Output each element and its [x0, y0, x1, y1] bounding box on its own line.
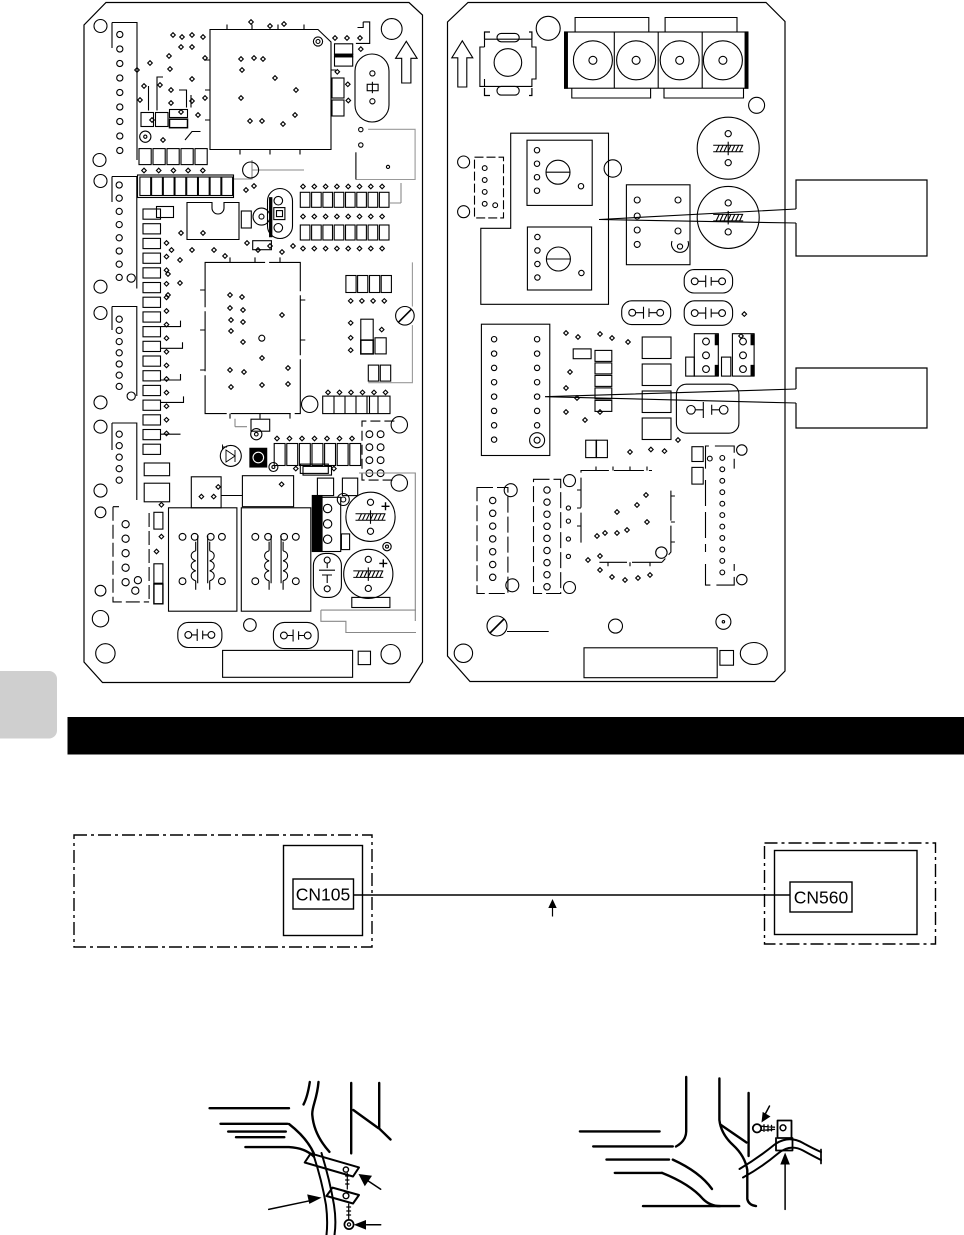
right illustration bottom corner curves [673, 1160, 712, 1189]
connector J5 right outline [362, 421, 394, 480]
relay RY2 [527, 227, 591, 290]
driver box A [191, 477, 221, 508]
capacitor C1 [346, 492, 395, 541]
gray side tab [0, 671, 57, 739]
power pad black square [250, 448, 267, 467]
via column beside ladder [164, 241, 169, 246]
mounting hole H8 [94, 396, 107, 409]
svg-text:CN105: CN105 [296, 885, 350, 905]
header rows CN4 row B [300, 225, 310, 240]
washer right [269, 463, 278, 472]
capacitor pair C12 [368, 365, 378, 381]
terminal block TB1 top brackets [575, 18, 737, 33]
callout box 1 [796, 180, 927, 256]
small part [157, 207, 174, 218]
left illustration arrow 2 [269, 1201, 310, 1210]
U2 edge ticks [200, 257, 305, 418]
orientation arrow right board [452, 41, 473, 87]
small part [573, 349, 591, 359]
buzzer BZ1 body [485, 32, 532, 96]
wire pointer arrow [552, 903, 554, 917]
IC U2 package [205, 262, 300, 413]
hole bottom mid [244, 619, 257, 632]
stub traces from ladder [161, 321, 184, 435]
trimmer VR1 obround [268, 189, 293, 239]
via row [142, 168, 147, 173]
CN560 label box [790, 882, 852, 912]
right illustration back edge line [747, 1093, 749, 1156]
part box [251, 419, 270, 431]
connector J4 outline [112, 423, 137, 500]
section banner [68, 717, 964, 755]
capacitor C3 [697, 117, 759, 179]
part column boxes [642, 337, 671, 359]
U2 vias [228, 293, 233, 298]
connector J12 outline [534, 479, 561, 593]
hole right2 [391, 475, 407, 491]
connector CN560 16pin [481, 324, 549, 455]
left illustration louver lines [210, 1107, 289, 1109]
mounting hole H4 [94, 175, 107, 188]
washer pad [383, 542, 391, 550]
cap pill B3 [684, 301, 732, 326]
hole H11 [302, 396, 318, 412]
via row below D1 [348, 299, 353, 304]
resistor network rows RN1 [139, 149, 151, 165]
unit A inner board box [284, 846, 363, 936]
via dots scatter mid [169, 248, 174, 253]
J10 pads [720, 456, 725, 461]
two squares [586, 440, 596, 457]
IC U1 package [210, 30, 331, 150]
cap pill P2 [273, 622, 318, 648]
IC U6 QFP [581, 471, 671, 563]
mounting hole H3 [381, 19, 402, 40]
unit B dash-dot box [765, 843, 936, 944]
connector J10 outline [706, 446, 735, 585]
zone line [368, 262, 412, 382]
part boxes left column [144, 463, 169, 476]
unit A dash-dot box [74, 835, 372, 947]
mounting hole H12 [95, 507, 106, 518]
black capacitor bar [312, 496, 322, 552]
connector J11 outline [477, 488, 508, 594]
right illustration clamp [778, 1121, 792, 1139]
J12 pads [544, 487, 550, 493]
J7 pads [482, 166, 487, 171]
U1 inner vias [239, 57, 244, 62]
pad with dot [716, 614, 731, 629]
mounting hole H10 [94, 484, 107, 497]
via dots cluster top [171, 33, 176, 38]
mounting hole H16 [381, 645, 400, 664]
right illustration arrow down [765, 1106, 770, 1115]
mounting hole HB3 [740, 643, 767, 665]
mounting hole H1 [94, 20, 107, 33]
IC U3 notched [187, 203, 239, 240]
connector J3 outline [112, 307, 137, 397]
J11 pads [490, 497, 496, 503]
unit B inner board box [775, 851, 918, 935]
small part [241, 211, 251, 228]
right illustration screw [753, 1124, 761, 1132]
pad circle [127, 274, 135, 282]
connection wire [354, 894, 791, 896]
connector row CN3 [326, 390, 331, 395]
callout 1 leader lines [599, 209, 796, 223]
part boxes row [303, 466, 332, 475]
capacitor C10 pair [335, 44, 353, 54]
cap pill B4 [676, 384, 739, 433]
trace bracket top right [356, 22, 370, 44]
mounting hole HB2 [454, 644, 472, 662]
transistor Q1 stacked boxes [361, 319, 373, 340]
washer above [251, 429, 262, 440]
screw hole with slash [396, 307, 415, 326]
cap pill B2 [622, 301, 671, 325]
mounting hole H14 [92, 611, 108, 627]
mounting hole H9 [94, 420, 107, 433]
left illustration plate [327, 1188, 360, 1204]
right illustration cabinet edge curves [676, 1077, 686, 1147]
bottom silk label box right [584, 648, 717, 678]
right illustration cable [740, 1139, 822, 1169]
washer pad [253, 208, 270, 225]
bottom silk label box [223, 650, 353, 677]
header rows CN4 row A [300, 192, 310, 207]
hole mid [604, 160, 621, 177]
relay zone outline [481, 133, 609, 304]
left illustration bottom corner curve [289, 1124, 314, 1153]
connector row CN5 [274, 444, 285, 466]
via row mid [275, 436, 280, 441]
right illustration arrow up [784, 1164, 786, 1209]
hole H6 [243, 162, 259, 178]
opto U4 [694, 334, 718, 376]
J6 pads [122, 521, 129, 528]
opto U5 [732, 334, 754, 376]
trace from RN2 to U1 [234, 160, 304, 179]
connector J2 pads [116, 182, 122, 188]
left illustration cabinet edge curves [304, 1082, 310, 1105]
hole HT2 [749, 97, 765, 113]
left illustration arrow 3 [367, 1224, 381, 1226]
header rows CN4 vias bottom [301, 246, 306, 251]
traces near capacitor bank [149, 77, 201, 140]
part below C2 [352, 597, 390, 607]
left illustration screw 2 [347, 1204, 351, 1219]
small caps beside optos [686, 357, 695, 376]
J5 pads [366, 431, 373, 438]
TB1 screws [573, 41, 612, 80]
driver box B [242, 476, 293, 507]
stacked pair [692, 447, 703, 462]
via row below U6 [598, 568, 603, 573]
mounting hole H5 [94, 280, 107, 293]
right illustration bottom edge [643, 1205, 739, 1207]
left illustration clamp bar [305, 1153, 359, 1176]
capacitor C11 pair [332, 78, 344, 98]
hole HB1 [609, 619, 623, 633]
capacitor C4 [697, 186, 759, 248]
via dots right of U1 [333, 36, 338, 41]
fiducial pad [313, 37, 322, 46]
mounting hole H2 [93, 154, 106, 167]
left illustration side panel lines [350, 1083, 352, 1153]
connector 3pin box [322, 497, 341, 551]
via scatter [564, 331, 569, 336]
small pad square [358, 651, 370, 664]
copper zone outline right [356, 129, 415, 179]
connector J3 pads [116, 316, 122, 322]
left illustration screw 1 shaft [346, 1173, 349, 1189]
transformer T2 [241, 508, 310, 611]
IC U1 edge ticks [205, 25, 336, 155]
capacitor C2 [344, 549, 393, 598]
connector J4 pads [116, 431, 122, 437]
cap pill B1 [684, 270, 732, 293]
header rows CN4 vias top [301, 184, 306, 189]
transformer T1 [169, 508, 237, 611]
power block PB1 [626, 185, 690, 265]
capacitor ladder CL1 [143, 209, 161, 219]
CN105 label box [293, 879, 354, 909]
callout 2 leader lines [545, 389, 796, 403]
callout box 2 [796, 368, 927, 428]
left illustration cable [314, 1155, 328, 1235]
svg-text:CN560: CN560 [794, 888, 849, 908]
connector J7 outline [475, 157, 504, 218]
terminal block TB1 bottom brackets [572, 88, 744, 98]
part ladder [595, 350, 612, 361]
relay K1 obround [355, 54, 389, 122]
connector J2 outline [112, 177, 137, 289]
right PCB board outline [448, 3, 786, 682]
small box right [341, 534, 349, 550]
hole HT1 [536, 16, 560, 40]
right illustration louver lines [580, 1130, 660, 1132]
resistor network rows RN2 outline [138, 175, 234, 198]
mounting hole H13 [95, 585, 106, 596]
mounting hole H15 [96, 644, 115, 663]
cap pill P1 [178, 622, 222, 647]
orientation arrow left board [396, 41, 418, 83]
connector J1 outline [112, 23, 137, 161]
diode array D1 boxes [346, 276, 356, 293]
washer pad [337, 494, 349, 506]
zone outline right low [321, 473, 416, 633]
header rows CN4 vias mid [301, 214, 306, 219]
connector J1 pads [117, 31, 123, 37]
pad circle P2 [140, 131, 151, 142]
mounting hole H7 [94, 307, 107, 320]
cap pill vertical [313, 553, 341, 597]
small pad square right [720, 651, 734, 666]
hole pads J7 [458, 156, 470, 168]
diode D2 circle [220, 445, 241, 466]
small rect part [300, 464, 328, 473]
relay RY1 [527, 140, 592, 205]
RN2 cells [140, 177, 151, 196]
left illustration arrow 1 [368, 1181, 381, 1190]
terminal block TB1 body [565, 32, 748, 88]
capacitor bank row [141, 113, 154, 127]
screw with slash bottom [487, 616, 507, 636]
left PCB board outline [84, 3, 423, 683]
connector J6 outline [113, 507, 149, 602]
hole right [391, 417, 407, 433]
